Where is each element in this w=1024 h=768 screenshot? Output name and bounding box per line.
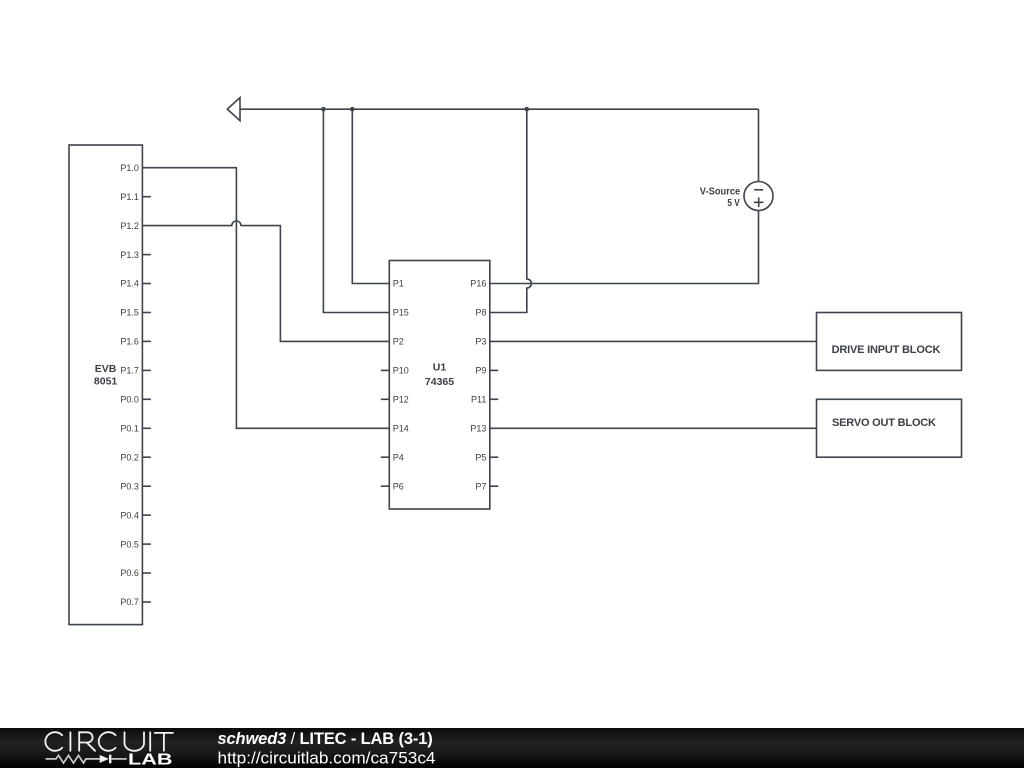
net flag input port arrow (227, 98, 240, 121)
svg-text:P2: P2 (393, 337, 404, 347)
svg-text:http://circuitlab.com/ca753c4: http://circuitlab.com/ca753c4 (218, 749, 436, 767)
svg-text:P0.1: P0.1 (120, 424, 139, 434)
SERVO OUT BLOCK (817, 399, 962, 457)
pin stub P5 (490, 456, 499, 458)
svg-text:P1: P1 (393, 279, 404, 289)
svg-text:P7: P7 (475, 481, 486, 491)
svg-text:P10: P10 (393, 366, 409, 376)
svg-text:P0.6: P0.6 (120, 568, 139, 578)
svg-text:5 V: 5 V (727, 198, 740, 209)
pin stub P0.1 (142, 427, 151, 429)
pin stub P0.0 (142, 398, 151, 400)
svg-text:P1.4: P1.4 (120, 279, 139, 289)
svg-text:P11: P11 (471, 395, 486, 405)
svg-text:P0.4: P0.4 (120, 510, 139, 520)
svg-text:P1.1: P1.1 (120, 192, 139, 202)
pin stub P4 (381, 456, 390, 458)
svg-text:P13: P13 (470, 424, 486, 434)
svg-text:P0.7: P0.7 (120, 597, 139, 607)
pin stub P1.6 (142, 340, 151, 342)
svg-text:8051: 8051 (94, 376, 118, 388)
pin stub P1.1 (142, 196, 151, 198)
wire V-source top lead (758, 109, 760, 181)
pin stub P1.3 (142, 254, 151, 256)
wire V-source bottom lead to U1 P16 (490, 211, 759, 284)
pin stub P10 (381, 369, 390, 371)
wire U1 P3 to DRIVE INPUT BLOCK (490, 340, 817, 342)
svg-text:DRIVE INPUT BLOCK: DRIVE INPUT BLOCK (832, 344, 941, 356)
DRIVE INPUT BLOCK (817, 313, 962, 371)
svg-text:P9: P9 (475, 366, 486, 376)
svg-text:P0.2: P0.2 (120, 452, 139, 462)
EVB pin labels (120, 163, 139, 607)
svg-text:74365: 74365 (425, 376, 454, 388)
CircuitLab logo word CIRCUIT (45, 732, 173, 751)
svg-text:P1.5: P1.5 (120, 308, 139, 318)
svg-text:P16: P16 (470, 279, 486, 289)
CircuitLab logo diode (100, 755, 109, 763)
junction dot on rail above P8 (525, 107, 530, 112)
U1 74365 block (381, 261, 499, 510)
EVB name labels (94, 363, 118, 388)
pin stub P0.7 (142, 601, 151, 603)
pin stub P12 (381, 398, 390, 400)
svg-text:P14: P14 (393, 424, 409, 434)
junction dot on rail above P1 (350, 107, 355, 112)
svg-text:P1.2: P1.2 (120, 221, 139, 231)
pin stub P0.5 (142, 543, 151, 545)
EVB 8051 block (69, 145, 151, 625)
pin stub P0.4 (142, 514, 151, 516)
svg-text:schwed3 / LITEC - LAB (3-1): schwed3 / LITEC - LAB (3-1) (218, 730, 433, 748)
svg-text:EVB: EVB (95, 363, 117, 375)
svg-text:P15: P15 (393, 308, 409, 318)
svg-text:P1.0: P1.0 (120, 163, 139, 173)
V-Source V1 (744, 182, 773, 211)
svg-text:P8: P8 (475, 308, 486, 318)
U1 name labels (425, 362, 454, 389)
svg-text:P12: P12 (393, 395, 409, 405)
svg-text:P3: P3 (475, 337, 486, 347)
svg-text:U1: U1 (433, 362, 447, 374)
svg-text:P0.5: P0.5 (120, 539, 139, 549)
svg-text:P5: P5 (475, 452, 486, 462)
wire U1 P13 to SERVO OUT BLOCK (490, 427, 817, 429)
U1 right pin labels (470, 279, 486, 492)
svg-text:P1.3: P1.3 (120, 250, 139, 260)
pin stub P0.6 (142, 572, 151, 574)
wire EVB P1.2 to U1 P2 with hop (142, 221, 389, 341)
svg-text:P6: P6 (393, 481, 404, 491)
svg-text:P1.6: P1.6 (120, 337, 139, 347)
pin stub P1.7 (142, 369, 151, 371)
svg-text:LAB: LAB (128, 752, 173, 768)
V-Source labels (700, 186, 741, 209)
pin stub P1.5 (142, 312, 151, 314)
CircuitLab logo resistor (46, 755, 100, 763)
pin stub P9 (490, 369, 499, 371)
svg-text:V-Source: V-Source (700, 186, 741, 197)
svg-text:P4: P4 (393, 452, 404, 462)
pin stub P0.3 (142, 485, 151, 487)
svg-text:P0.3: P0.3 (120, 481, 139, 491)
U1 left pin labels (393, 279, 409, 492)
wire EVB P1.0 to U1 P14 (142, 168, 389, 429)
footer bar (0, 728, 1024, 768)
wire top rail (240, 108, 759, 110)
pin stub P11 (490, 398, 499, 400)
svg-text:P0.0: P0.0 (120, 395, 139, 405)
wire rail drop to U1 P1 (352, 109, 389, 283)
pin stub P1.4 (142, 283, 151, 285)
svg-text:SERVO OUT BLOCK: SERVO OUT BLOCK (832, 417, 936, 429)
pin stub P7 (490, 485, 499, 487)
svg-text:P1.7: P1.7 (120, 366, 139, 376)
pin stub P0.2 (142, 456, 151, 458)
pin stub P6 (381, 485, 390, 487)
wire rail drop to U1 P15 (323, 109, 389, 312)
junction dot on rail above P15 (321, 107, 326, 112)
wire rail drop to U1 P8 with hop over P16 wire (490, 109, 532, 312)
